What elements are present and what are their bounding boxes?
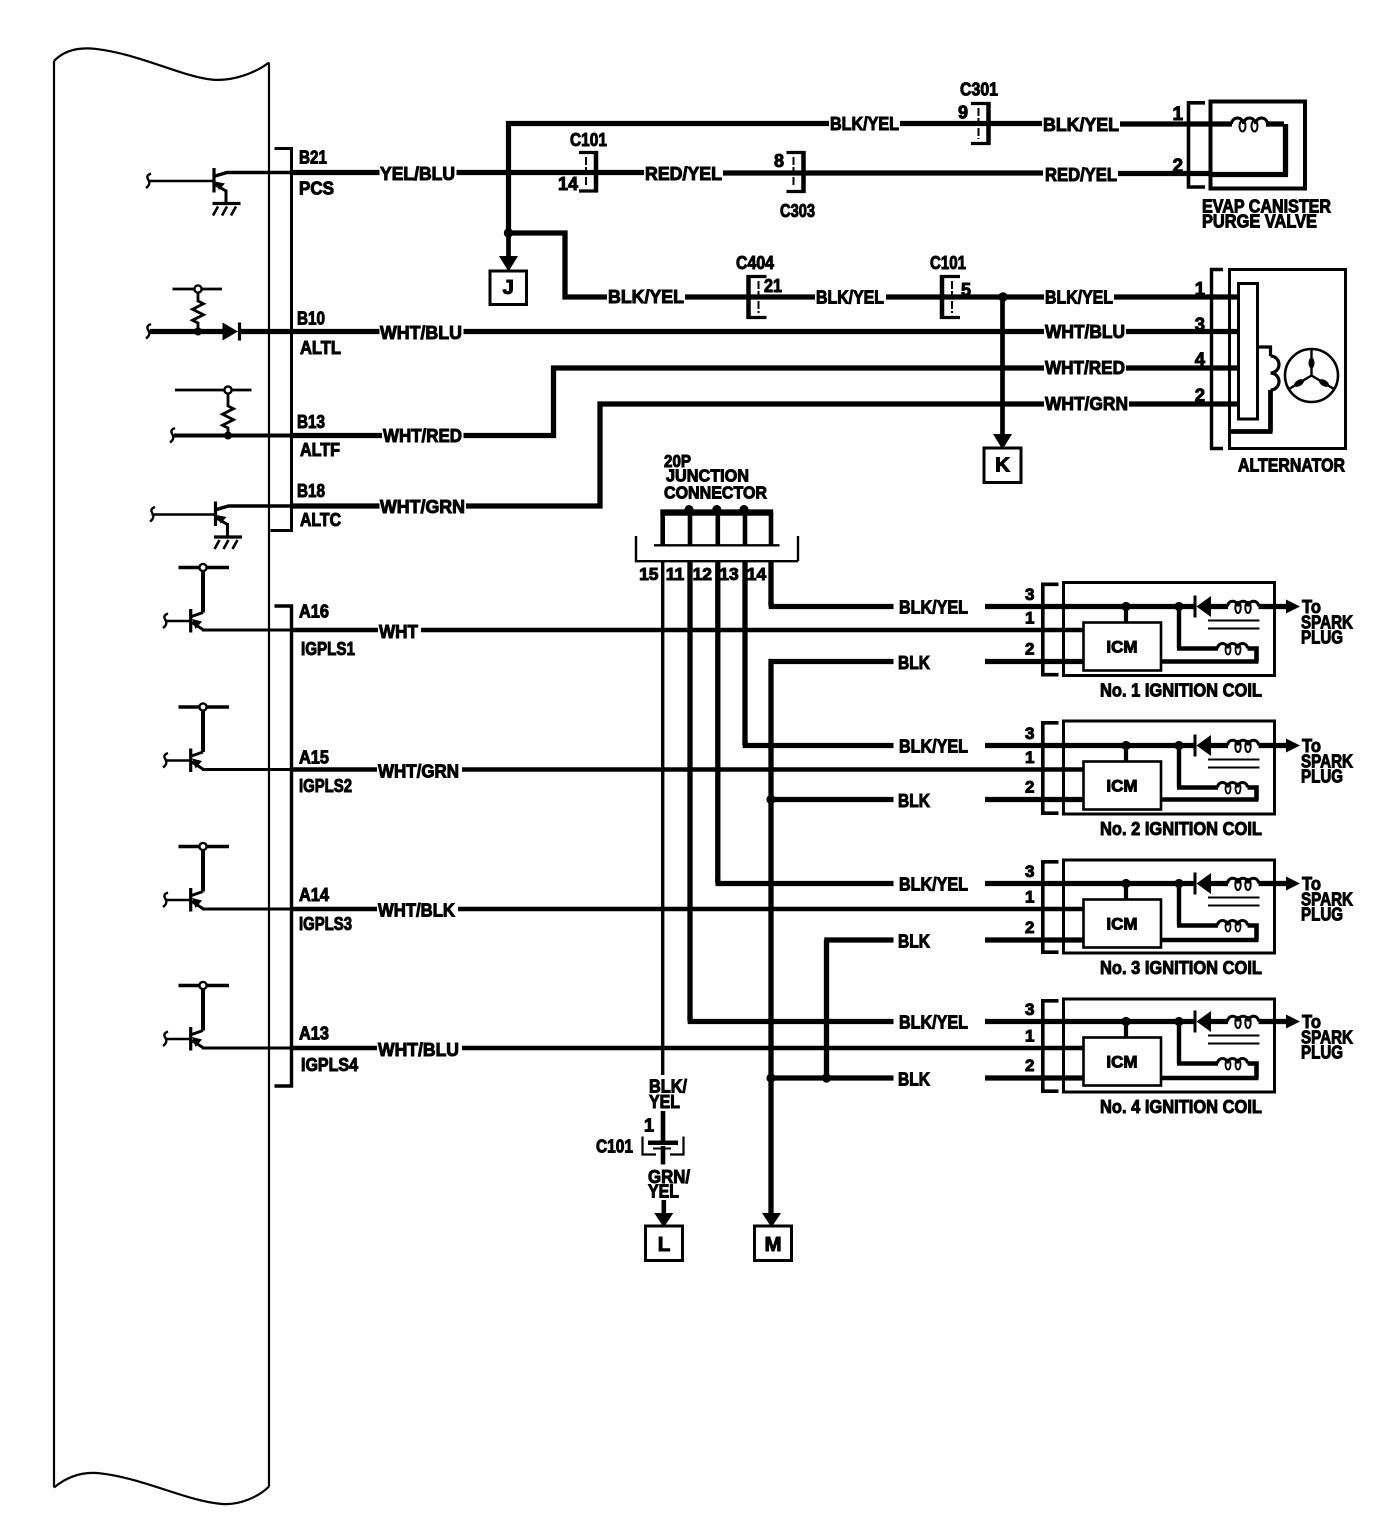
svg-text:L: L [658,1233,671,1256]
svg-text:CONNECTOR: CONNECTOR [664,483,767,503]
svg-text:BLK/YEL: BLK/YEL [1045,287,1113,308]
svg-text:5: 5 [961,280,971,300]
svg-text:21: 21 [764,276,782,296]
EVAP canister purge valve box [1211,102,1306,189]
wire BLK coil 3 drop [824,940,893,1078]
svg-text:RED/YEL: RED/YEL [1045,164,1117,185]
wire B18 ALTC WHT/GRN [293,503,380,508]
svg-text:4: 4 [1195,349,1206,370]
svg-text:BLK/YEL: BLK/YEL [899,874,968,895]
wire B10 ALTL WHT/BLU [293,329,380,334]
svg-text:8: 8 [774,151,784,171]
ECM connector A bracket [275,606,292,1086]
resistor R1 (ALTL pull-up) [173,288,223,291]
page connector box L [646,1226,683,1261]
svg-text:2: 2 [1173,156,1184,177]
connector C101 pin 1 (vertical) [648,1141,678,1146]
wire arrow shaft to L [661,1200,666,1215]
svg-text:2: 2 [1195,385,1205,406]
coil 2 secondary winding [1177,746,1218,788]
wire IGPLS3 internal [202,908,293,911]
svg-text:WHT/BLU: WHT/BLU [378,1039,459,1060]
svg-text:No. 2 IGNITION COIL: No. 2 IGNITION COIL [1100,818,1262,839]
coil 4 transformer core [1208,1036,1260,1044]
ECM connector B bracket [271,149,292,531]
svg-text:1: 1 [1173,104,1184,125]
arrowhead to M [762,1213,781,1228]
svg-text:3: 3 [1025,862,1034,881]
svg-text:BLK: BLK [898,790,931,811]
diode D5 (coil 4) [1194,1011,1197,1033]
svg-text:C301: C301 [960,80,998,100]
svg-text:ICM: ICM [1106,777,1137,796]
svg-text:ICM: ICM [1106,915,1137,934]
svg-text:IGPLS3: IGPLS3 [299,914,352,934]
20P connector shell [635,536,798,561]
wire RED/YEL to C303 to EVAP [723,170,1043,175]
wire BLK coil 4 pin 2 [985,1075,1084,1080]
ignition coil 1 connector bracket [1043,584,1059,674]
resistor R2 (ALTF pull-up) [175,389,252,392]
connector C404 pin 21 [749,277,767,318]
coil 1 output arrow to spark plug [1275,604,1289,609]
junction dot BLK coil3 drop [822,1073,831,1082]
svg-text:2: 2 [1025,640,1034,659]
svg-text:YEL: YEL [648,1181,679,1202]
transistor Q6 IGPLS4 driver [166,982,229,1051]
page connector box M [755,1226,792,1261]
svg-text:ALTL: ALTL [300,338,341,358]
svg-text:14: 14 [747,564,767,584]
svg-text:ALTF: ALTF [300,440,340,460]
transistor Q4 IGPLS2 driver [166,703,229,772]
wire continuation tick IGPLS3 [163,893,168,908]
wire continuation tick Q2 base [150,507,155,522]
wire YEL/BLU to C101 [457,170,645,175]
wire BLK coil 3 pin 2 [985,937,1084,942]
svg-text:14: 14 [558,174,578,194]
svg-text:IGPLS4: IGPLS4 [301,1055,358,1075]
wire A-pin WHT/BLU [293,1046,377,1051]
wire BLK/YEL coil 2 pin 3 [985,743,1124,748]
wire A-pin WHT/GRN [293,767,377,772]
junction dot on 20P bus [740,505,749,514]
20P connector pins [660,513,665,546]
wire BLK coil 2 pin 2 [985,797,1084,802]
svg-text:2: 2 [1025,918,1034,937]
wire D1 to pin B10 [238,329,293,334]
svg-text:3: 3 [1025,724,1034,743]
wire pin 12 drop to coil 3 [716,562,894,884]
svg-text:WHT/RED: WHT/RED [383,425,462,446]
junction dot on 20P bus [685,505,694,514]
svg-text:1: 1 [1025,1027,1034,1046]
ICM module U2 [1124,746,1128,762]
EVAP coil windings [1232,118,1268,124]
svg-text:BLK/YEL: BLK/YEL [608,286,684,307]
wire B10 internal [150,329,223,334]
wire WHT/BLU alternator pin 3 [1126,329,1240,334]
arrowhead to K [993,434,1012,450]
coil 3 secondary winding [1177,884,1218,926]
wire WHT/BLK to ignition coil 3 [458,907,1084,912]
transistor Q5 IGPLS3 driver [166,843,229,912]
ECM module torn outline [53,61,55,1488]
coil 2 transformer core [1208,760,1260,768]
wire BLK coil 4 [771,1075,894,1080]
wire WHT/RED jog up to alternator pin 4 [464,368,1045,436]
wire WHT/BLU to alternator [464,329,1045,334]
wire BLK/YEL coil 1 pin 3 [985,604,1124,609]
junction dot coil 4 ICM feed [1121,1017,1130,1026]
svg-text:C101: C101 [596,1137,633,1157]
ignition coil 4 primary feed [1124,1019,1196,1024]
ignition coil 2 primary feed [1124,743,1196,748]
wire BLK/YEL to EVAP pin 1 [1120,121,1211,126]
ignition coil 1 primary feed [1124,604,1196,609]
diode D2 (coil 1) [1194,596,1197,618]
junction dot coil 2 secondary feed [1174,741,1183,750]
svg-text:A15: A15 [299,748,329,768]
svg-text:1: 1 [1025,609,1034,628]
wire BLK/YEL alternator pin 1 [1114,294,1240,299]
svg-text:PLUG: PLUG [1301,904,1343,925]
svg-text:A13: A13 [299,1024,329,1044]
wire continuation tick IGPLS2 [163,753,168,768]
svg-text:PCS: PCS [299,179,334,199]
svg-text:PLUG: PLUG [1301,1042,1343,1063]
ignition coil 3 connector bracket [1043,862,1059,952]
wire B13 internal [174,434,293,438]
arrowhead to J [499,256,518,272]
svg-text:B18: B18 [297,481,325,501]
wire WHT/RED alternator pin 4 [1126,365,1240,370]
svg-text:C404: C404 [736,253,774,273]
svg-text:ICM: ICM [1106,638,1137,657]
svg-text:PURGE VALVE: PURGE VALVE [1202,211,1317,232]
svg-text:3: 3 [1195,314,1205,335]
junction dot coil 1 secondary feed [1174,602,1183,611]
junction dot coil 3 ICM feed [1121,879,1130,888]
wire arrow shaft to J [506,237,511,258]
wire pin 11 drop to coil 4 [688,562,894,1022]
svg-text:BLK/YEL: BLK/YEL [899,597,968,618]
wire continuation tick B13 [170,428,175,443]
wire B13 ALTF WHT/RED [293,433,382,438]
alternator stator (3-phase) symbol [1285,349,1338,402]
svg-text:K: K [995,454,1010,477]
coil 3 transformer core [1208,898,1260,906]
wire continuation tick Q1 base [146,174,151,189]
svg-text:11: 11 [666,564,685,584]
wire arrow shaft to K [1000,297,1005,436]
alternator connector bracket [1212,270,1224,449]
wire IGPLS4 internal [202,1047,293,1050]
coil 4 primary winding [1209,1019,1228,1024]
svg-text:1: 1 [644,1116,654,1136]
svg-text:WHT/RED: WHT/RED [1045,357,1125,378]
svg-text:BLK: BLK [898,1069,931,1090]
diode D4 (coil 3) [1194,873,1197,895]
ignition coil 3 box [1064,860,1275,953]
coil 4 output arrow to spark plug [1275,1019,1289,1024]
svg-text:WHT/GRN: WHT/GRN [1045,393,1128,414]
svg-text:PLUG: PLUG [1301,627,1343,648]
svg-text:3: 3 [1025,585,1034,604]
svg-text:No. 1 IGNITION COIL: No. 1 IGNITION COIL [1100,680,1262,701]
ICM module U1 [1124,607,1128,623]
ignition coil 4 connector bracket [1043,1001,1059,1091]
wire BLK coil 2 [771,797,894,802]
svg-text:1: 1 [1025,888,1034,907]
svg-text:BLK/YEL: BLK/YEL [1043,114,1119,135]
wire BLK/YEL into C101-1 [661,1111,666,1141]
svg-text:9: 9 [958,103,968,123]
svg-text:BLK/YEL: BLK/YEL [899,736,968,757]
wire BLK/YEL feed vertical with elbow [509,124,830,234]
svg-text:2: 2 [1025,778,1034,797]
wire continuation tick IGPLS4 [163,1032,168,1047]
wire pin 15 drop (BLK/YEL to C101-1) [661,562,664,1076]
svg-text:C303: C303 [780,201,815,221]
alternator field coil [1258,347,1271,356]
svg-text:YEL: YEL [649,1091,680,1112]
ignition coil 3 primary feed [1124,881,1196,886]
coil 3 primary winding [1209,881,1228,886]
coil 2 primary winding [1209,743,1228,748]
junction dot R1 to B10 wire [194,328,202,336]
wire WHT to ignition coil 1 [421,628,1084,633]
junction dot coil 1 ICM feed [1121,602,1130,611]
wire BLK/YEL coil 3 pin 3 [985,881,1124,886]
transistor Q3 IGPLS1 driver [166,564,229,633]
wire BLK/YEL to C301 [900,121,1042,126]
wire BLK/YEL to C404 [685,294,815,299]
page connector box K [984,448,1021,483]
svg-text:BLK/YEL: BLK/YEL [830,113,899,134]
junction dot coil 3 secondary feed [1174,879,1183,888]
wire A-pin WHT/BLK [293,907,377,912]
svg-text:ICM: ICM [1106,1053,1137,1072]
coil 1 primary winding [1209,604,1228,609]
wire pin 13 drop to coil 2 [743,562,894,746]
wire RED/YEL to EVAP pin 2 [1118,171,1211,176]
connector C101 pin 5 [942,277,960,318]
alternator box [1230,270,1346,449]
svg-text:A16: A16 [299,602,329,622]
wire continuation tick IGPLS1 [163,614,168,629]
coil 1 secondary winding [1177,607,1218,649]
svg-text:ALTC: ALTC [300,510,341,530]
transistor Q1 PCS driver [150,168,293,216]
junction dot K branch [998,292,1007,301]
junction dot on 20P bus [712,505,721,514]
coil 4 secondary winding [1177,1022,1218,1064]
20P junction connector bus bar [660,509,773,515]
alternator regulator block [1239,284,1258,420]
svg-text:B21: B21 [299,148,327,168]
svg-text:ALTERNATOR: ALTERNATOR [1238,455,1345,476]
wire GRN/YEL out of C101-1 [661,1146,666,1165]
connector C101 pin 14 [579,153,596,192]
coil 1 transformer core [1208,621,1260,629]
svg-text:WHT/BLU: WHT/BLU [1045,321,1125,342]
ignition coil 1 box [1064,583,1275,676]
svg-text:BLK: BLK [898,652,931,673]
junction dot coil 4 secondary feed [1174,1017,1183,1026]
wire branch to lower BLK/YEL row [509,233,608,297]
arrowhead to L [654,1213,673,1228]
svg-text:13: 13 [719,564,739,584]
svg-text:2: 2 [1025,1056,1034,1075]
wire pin 14 drop to coil 1 [769,562,894,607]
svg-text:1: 1 [1025,748,1034,767]
wire WHT/GRN jog up to alternator pin 2 [466,404,1044,506]
wire WHT/BLU to ignition coil 4 [462,1046,1084,1051]
ignition coil 4 box [1064,999,1275,1092]
svg-text:IGPLS2: IGPLS2 [299,776,352,796]
wire BLK/YEL to C101-5 [886,294,1044,299]
coil 3 output arrow to spark plug [1275,881,1289,886]
page connector box J [490,271,527,305]
diode D3 (coil 2) [1194,735,1197,757]
junction dot R2 to B13 wire [224,432,232,440]
svg-text:No. 4 IGNITION COIL: No. 4 IGNITION COIL [1100,1096,1262,1117]
ICM module U3 [1124,884,1128,900]
EVAP connector bracket [1189,103,1206,187]
svg-text:WHT: WHT [379,621,419,642]
junction dot BLK coil 2 [766,795,775,804]
wire BLK bus [769,662,771,1216]
junction dot BLK bus bottom [766,1073,775,1082]
svg-text:BLK/YEL: BLK/YEL [899,1012,968,1033]
ICM module U4 [1124,1022,1128,1038]
wire WHT/GRN to ignition coil 2 [462,767,1084,772]
svg-text:B10: B10 [297,309,325,329]
wire WHT/GRN alternator pin 2 [1129,401,1240,406]
EVAP solenoid coil [1212,121,1232,126]
wire IGPLS2 internal [202,768,293,771]
wire A-pin WHT [293,628,378,633]
diode D1 (ALTL) [223,323,239,341]
svg-text:1: 1 [1195,278,1205,299]
svg-text:B13: B13 [297,412,325,432]
wire B21 PCS YEL/BLU [293,170,380,175]
svg-text:15: 15 [639,564,659,584]
svg-text:C101: C101 [570,130,607,150]
svg-text:No. 3 IGNITION COIL: No. 3 IGNITION COIL [1100,957,1262,978]
transistor Q2 ALTC driver [152,502,294,550]
svg-text:YEL/BLU: YEL/BLU [380,163,455,184]
junction dot BLK/YEL branch [504,228,513,237]
svg-text:WHT/GRN: WHT/GRN [380,496,465,517]
wire continuation tick B10 [146,324,151,339]
svg-text:WHT/BLU: WHT/BLU [380,322,462,343]
svg-text:BLK/YEL: BLK/YEL [816,287,884,308]
svg-text:RED/YEL: RED/YEL [645,163,722,184]
svg-text:M: M [764,1233,781,1256]
ignition coil 2 connector bracket [1043,723,1059,813]
coil 2 output arrow to spark plug [1275,743,1289,748]
svg-text:PLUG: PLUG [1301,766,1343,787]
svg-text:BLK: BLK [898,931,931,952]
wire BLK coil 1 pin 2 [985,659,1084,664]
svg-text:J: J [503,276,514,299]
wire IGPLS1 internal [202,629,293,632]
svg-text:12: 12 [693,564,713,584]
ignition coil 2 box [1064,721,1275,814]
svg-text:IGPLS1: IGPLS1 [301,639,355,659]
connector C301 pin 9 [971,104,989,144]
junction dot coil 2 ICM feed [1121,741,1130,750]
svg-text:WHT/GRN: WHT/GRN [378,761,459,782]
svg-text:A14: A14 [299,885,329,905]
svg-text:3: 3 [1025,1000,1034,1019]
svg-text:WHT/BLK: WHT/BLK [378,900,456,921]
wire BLK coil 1 [769,659,894,662]
connector C303 pin 8 [787,153,804,192]
wire BLK/YEL coil 4 pin 3 [985,1019,1124,1024]
svg-text:C101: C101 [930,253,966,273]
